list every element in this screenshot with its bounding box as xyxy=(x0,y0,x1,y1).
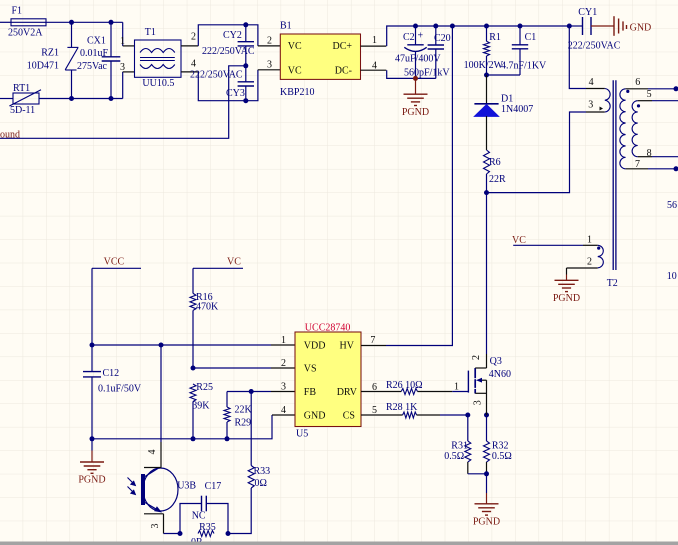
svg-text:560pF/1kV: 560pF/1kV xyxy=(404,68,450,79)
resistor R25 xyxy=(190,384,196,402)
pin 3 stub of B1 xyxy=(258,69,280,71)
svg-text:1: 1 xyxy=(587,235,592,246)
resistor R6 xyxy=(484,150,490,174)
svg-text:56: 56 xyxy=(667,200,677,211)
svg-text:222/250VAC: 222/250VAC xyxy=(568,41,621,52)
power ground PGND bottom-left xyxy=(91,438,93,450)
junction VCC at PGND rail xyxy=(90,436,95,441)
svg-text:UU10.5: UU10.5 xyxy=(142,78,174,89)
svg-text:3: 3 xyxy=(588,100,593,111)
earth ground GND xyxy=(591,25,614,27)
diode D1 1N4007 xyxy=(486,75,488,104)
svg-text:UCC28740: UCC28740 xyxy=(305,323,351,334)
svg-text:250V2A: 250V2A xyxy=(8,28,43,39)
wire T1 pin4 down and right to B1 pin3 xyxy=(198,70,258,101)
svg-text:DC+: DC+ xyxy=(332,41,352,52)
junction Q3 source node xyxy=(484,413,489,418)
junction CY2 top xyxy=(243,22,248,27)
capacitor C1 xyxy=(519,26,521,45)
svg-text:3: 3 xyxy=(120,62,125,73)
svg-text:+: + xyxy=(418,31,424,42)
junction R16/R25 at VS wire xyxy=(191,366,196,371)
svg-text:R28 1K: R28 1K xyxy=(386,402,418,413)
svg-text:R26 10Ω: R26 10Ω xyxy=(386,380,423,391)
svg-text:VS: VS xyxy=(304,364,317,375)
svg-text:RT1: RT1 xyxy=(13,83,30,94)
T2 inner winding polarity dot xyxy=(637,104,640,107)
svg-text:R25: R25 xyxy=(196,382,213,393)
pin 3 stub of T2 xyxy=(586,111,605,113)
junction HV line at top rail xyxy=(450,24,455,29)
svg-text:VC: VC xyxy=(288,41,302,52)
pin 1 stub of UCC xyxy=(271,344,295,346)
wire fuse to T1 corner xyxy=(46,21,123,23)
wire T1 pin2 up and right to B1 pin2 xyxy=(198,25,258,46)
svg-text:B1: B1 xyxy=(280,21,292,32)
svg-text:R29: R29 xyxy=(235,417,252,428)
wire UCC pin4 GND down to rail xyxy=(92,415,272,439)
svg-text:4: 4 xyxy=(147,450,158,455)
svg-text:VC: VC xyxy=(512,235,526,246)
T2 primary winding pins 4-3 xyxy=(605,89,610,113)
capacitor CX1 xyxy=(110,22,112,57)
junction C20 top xyxy=(433,24,438,29)
junction C17 left leg xyxy=(178,531,183,536)
capacitor CY2 xyxy=(245,25,247,42)
resistor R35 0R xyxy=(198,531,214,537)
wire corner up to T1 pin3 xyxy=(122,72,124,99)
pin 5 wire of T2 to right edge xyxy=(638,100,652,102)
svg-text:6: 6 xyxy=(635,77,640,88)
wire VDD net to UCC pin1 xyxy=(92,344,271,346)
resistor R28 1K xyxy=(403,412,417,418)
junction CX1 top xyxy=(109,20,114,25)
svg-text:5: 5 xyxy=(372,405,377,416)
svg-text:5: 5 xyxy=(647,89,652,100)
wire AC line top-left to fuse xyxy=(0,21,11,23)
power ground PGND at aux winding xyxy=(566,275,568,281)
junction C17 right leg xyxy=(226,531,231,536)
T2 primary polarity mark xyxy=(600,107,604,111)
svg-text:47uF/400V: 47uF/400V xyxy=(395,54,441,65)
resistor R31 0.5ohm xyxy=(467,415,469,441)
pin 1 stub of B1 xyxy=(361,45,387,47)
pin 7 wire of T2 to right edge xyxy=(626,168,648,170)
junction R1 bottom / C1 bottom xyxy=(484,73,489,78)
svg-text:470K: 470K xyxy=(196,302,219,313)
svg-text:2: 2 xyxy=(587,257,592,268)
svg-text:R1: R1 xyxy=(489,32,501,43)
junction CY3 bottom xyxy=(243,98,248,103)
svg-text:4N60: 4N60 xyxy=(489,369,511,380)
svg-text:DC-: DC- xyxy=(335,65,352,76)
svg-text:275Vac: 275Vac xyxy=(77,61,108,72)
svg-text:1: 1 xyxy=(372,35,377,46)
svg-text:ound: ound xyxy=(0,129,20,140)
resistor R33 0ohm xyxy=(248,466,254,489)
svg-text:VC: VC xyxy=(288,65,302,76)
svg-text:4: 4 xyxy=(281,405,286,416)
svg-text:GND: GND xyxy=(304,411,326,422)
transformer T2 core xyxy=(612,80,614,270)
svg-text:PGND: PGND xyxy=(553,293,580,304)
svg-text:C2: C2 xyxy=(403,32,415,43)
svg-text:39K: 39K xyxy=(192,401,210,412)
svg-text:PGND: PGND xyxy=(402,107,429,118)
pin 6 wire of T2 to right edge xyxy=(626,88,648,90)
junction R28 right / R31 top xyxy=(465,413,470,418)
junction CY1 tap on rail xyxy=(567,24,572,29)
capacitor CY3 xyxy=(245,66,247,82)
svg-text:1: 1 xyxy=(454,382,459,393)
svg-text:HV: HV xyxy=(340,341,355,352)
junction RZ1 top xyxy=(69,20,74,25)
wire T2 pin1 to VC net label xyxy=(583,244,598,246)
svg-text:8: 8 xyxy=(647,148,652,159)
T2 auxiliary winding pins 1-2 xyxy=(598,245,604,267)
pin 5 stub of UCC xyxy=(361,414,403,416)
resistor R1 xyxy=(486,26,488,41)
power ground PGND below Q3 xyxy=(486,474,488,493)
svg-text:C12: C12 xyxy=(103,368,120,379)
wire top rail to T2 pin4 xyxy=(569,26,586,89)
pin 3 stub of T1 xyxy=(123,71,135,73)
resistor R26 10ohm xyxy=(401,389,417,395)
svg-text:T1: T1 xyxy=(145,27,156,38)
wire R35 node right to R33 bottom xyxy=(228,488,251,534)
svg-text:6: 6 xyxy=(372,382,377,393)
svg-text:10D471: 10D471 xyxy=(27,61,59,72)
junction C2 bottom at PGND node xyxy=(413,76,418,81)
wire R6 junction right and up to T2 pin3 xyxy=(487,112,587,193)
junction R25 bottom xyxy=(191,436,196,441)
svg-text:R32: R32 xyxy=(492,440,509,451)
wire B1 DC+ up to main HV rail xyxy=(387,26,570,46)
opto light arrows xyxy=(128,478,134,484)
wire corner down to T1 pin1 xyxy=(122,22,124,46)
junction C2 top xyxy=(413,24,418,29)
T2 outer winding polarity dot xyxy=(626,90,629,93)
svg-text:U3B: U3B xyxy=(177,481,196,492)
svg-text:KBP210: KBP210 xyxy=(280,87,314,98)
T2 aux winding polarity dot xyxy=(597,247,600,250)
resistor R29 xyxy=(226,392,228,408)
wire RT1 to T1 corner xyxy=(39,98,123,100)
fuse F1 xyxy=(11,19,46,26)
svg-text:2: 2 xyxy=(471,355,482,360)
pin 3 stub of UCC xyxy=(271,391,295,393)
pin 1 stub of T1 xyxy=(123,45,135,47)
resistor R32 0.5ohm xyxy=(486,415,488,441)
svg-text:2: 2 xyxy=(267,36,272,47)
varistor RZ1 xyxy=(71,22,73,47)
svg-text:4: 4 xyxy=(372,61,377,72)
svg-text:1: 1 xyxy=(120,36,125,47)
IC U5 UCC28740 xyxy=(295,332,361,427)
pin 4 stub of UCC xyxy=(272,414,295,416)
junction VCC/VDD wire xyxy=(90,343,95,348)
wire VCC down to PGND rail xyxy=(91,268,93,371)
junction pin7 at right edge xyxy=(674,166,678,171)
svg-text:T2: T2 xyxy=(607,278,618,289)
svg-text:RZ1: RZ1 xyxy=(41,48,59,59)
capacitor C2 electrolytic xyxy=(415,26,417,45)
wire B1 DC- down to PGND rail xyxy=(387,70,436,78)
junction R6 bottom xyxy=(484,190,489,195)
wire Y-cap midpoint to earth ground run xyxy=(0,66,246,139)
bridge rectifier B1 KBP210 xyxy=(280,34,360,79)
wire AC line bottom-left to RT1 xyxy=(0,98,13,100)
common-mode choke T1 xyxy=(135,40,182,77)
pin 2 stub of B1 xyxy=(258,45,280,47)
junction pin6 at right edge xyxy=(674,86,678,91)
wire opto collector up to VDD wire xyxy=(160,345,162,442)
transistor Q3 4N60 MOSFET xyxy=(467,371,469,393)
svg-text:3: 3 xyxy=(281,382,286,393)
svg-text:CX1: CX1 xyxy=(87,35,106,46)
capacitor C20 xyxy=(435,26,437,45)
svg-text:CS: CS xyxy=(343,411,355,422)
svg-text:VC: VC xyxy=(227,256,241,267)
junction R33 drop on FB wire xyxy=(249,389,254,394)
wire FB net to UCC pin3 xyxy=(227,391,271,393)
svg-text:3: 3 xyxy=(472,400,483,405)
svg-text:U5: U5 xyxy=(296,429,308,440)
svg-text:R31: R31 xyxy=(451,440,468,451)
svg-text:2: 2 xyxy=(281,358,286,369)
pin 4 stub of B1 xyxy=(361,69,387,71)
svg-text:0.1uF/50V: 0.1uF/50V xyxy=(98,383,142,394)
wire T2 pin2 down to PGND xyxy=(567,267,598,269)
thermistor RT1 xyxy=(13,93,39,104)
wire opto emitter to R35/C17 node xyxy=(164,533,181,535)
wire VS net to UCC pin2 xyxy=(193,367,271,369)
svg-text:Q3: Q3 xyxy=(490,356,502,367)
svg-text:C17: C17 xyxy=(205,481,222,492)
pin 4 stub of T2 xyxy=(586,88,605,90)
svg-text:0Ω: 0Ω xyxy=(255,478,267,489)
svg-text:3: 3 xyxy=(267,59,272,70)
pin 6 stub of UCC xyxy=(361,391,401,393)
svg-text:CY2: CY2 xyxy=(223,30,242,41)
svg-text:D1: D1 xyxy=(501,93,513,104)
pin 7 stub of UCC xyxy=(361,345,386,347)
svg-text:NC: NC xyxy=(192,511,206,522)
capacitor CY1 xyxy=(569,25,582,27)
svg-text:22K: 22K xyxy=(235,404,253,415)
svg-text:4.7nF/1KV: 4.7nF/1KV xyxy=(501,60,547,71)
power ground PGND below C2 xyxy=(415,78,417,94)
junction R1 top xyxy=(484,24,489,29)
svg-text:F1: F1 xyxy=(12,6,23,17)
svg-text:7: 7 xyxy=(635,159,640,170)
svg-text:R33: R33 xyxy=(254,466,271,477)
optocoupler U3B phototransistor xyxy=(143,468,178,511)
junction opto collector on VDD wire xyxy=(159,343,164,348)
pin 4 stub of T1 xyxy=(181,71,198,73)
pin 2 stub of UCC xyxy=(271,367,295,369)
svg-text:PGND: PGND xyxy=(473,516,500,527)
wire HV rail down to UCC28740 HV pin xyxy=(386,26,452,346)
svg-text:100K/2W: 100K/2W xyxy=(464,60,504,71)
junction R31/R32 bottom xyxy=(484,471,489,476)
junction CX1 bottom xyxy=(109,96,114,101)
wire R6 junction down to Q3 drain xyxy=(486,193,488,354)
svg-text:FB: FB xyxy=(304,387,317,398)
window edge band xyxy=(0,542,678,545)
svg-text:2: 2 xyxy=(191,32,196,43)
svg-text:4: 4 xyxy=(191,59,196,70)
svg-text:C20: C20 xyxy=(434,33,451,44)
svg-text:0.5Ω: 0.5Ω xyxy=(444,451,464,462)
junction CY2/CY3 midpoint xyxy=(243,63,248,68)
svg-text:GND: GND xyxy=(630,23,652,34)
pin 2 stub of T1 xyxy=(181,45,198,47)
svg-text:1N4007: 1N4007 xyxy=(501,104,533,115)
svg-text:5D-11: 5D-11 xyxy=(10,105,35,116)
svg-text:VCC: VCC xyxy=(104,256,125,267)
svg-text:4: 4 xyxy=(589,77,594,88)
junction R29 bottom xyxy=(225,436,230,441)
svg-text:0.5Ω: 0.5Ω xyxy=(492,451,512,462)
svg-text:1: 1 xyxy=(281,335,286,346)
svg-text:R35: R35 xyxy=(199,522,216,533)
svg-text:222/250VAC: 222/250VAC xyxy=(202,46,255,57)
resistor R16 xyxy=(192,268,194,293)
svg-text:7: 7 xyxy=(370,335,375,346)
junction C1 top xyxy=(518,24,523,29)
svg-text:22R: 22R xyxy=(489,174,506,185)
svg-text:C1: C1 xyxy=(525,32,537,43)
svg-text:VDD: VDD xyxy=(304,341,326,352)
T2 secondary outer winding pins 6-7 xyxy=(620,89,626,169)
svg-text:222/250VAC: 222/250VAC xyxy=(190,70,243,81)
svg-text:CY1: CY1 xyxy=(578,7,597,18)
svg-text:DRV: DRV xyxy=(337,387,358,398)
junction RZ1 bottom xyxy=(69,96,74,101)
capacitor C17 (NC) xyxy=(180,504,202,534)
T2 secondary inner winding pins 5-8 xyxy=(632,101,638,157)
svg-text:3: 3 xyxy=(150,524,161,529)
svg-text:PGND: PGND xyxy=(78,475,105,486)
capacitor C12 xyxy=(83,371,101,373)
svg-text:10: 10 xyxy=(667,271,677,282)
pin 8 wire of T2 to right edge xyxy=(638,156,652,158)
svg-text:0.01uF: 0.01uF xyxy=(80,48,109,59)
svg-text:R6: R6 xyxy=(489,157,501,168)
